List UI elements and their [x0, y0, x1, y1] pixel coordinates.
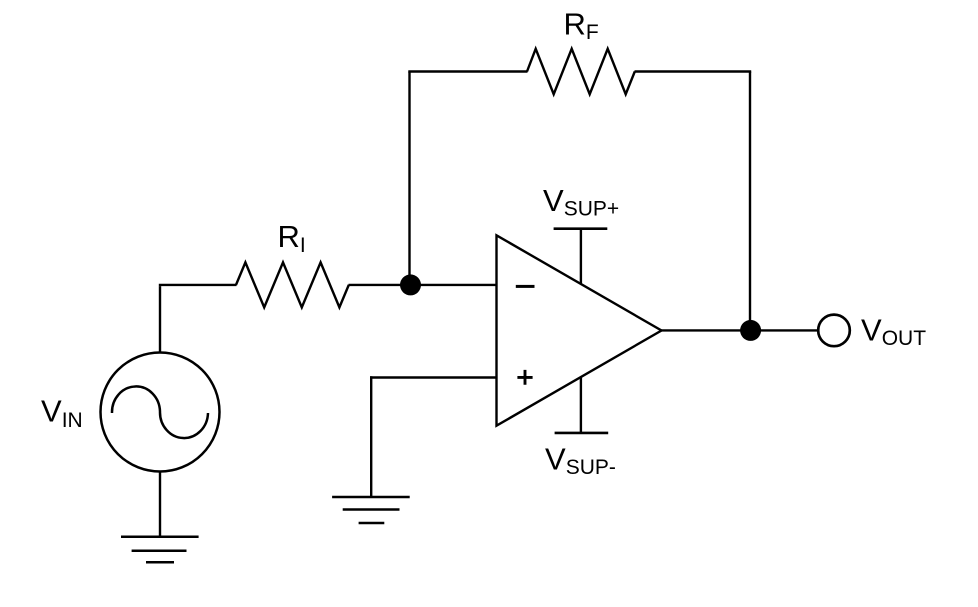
svg-text:F: F	[586, 21, 599, 44]
wire feedback top-left horizontal	[408, 70, 527, 72]
source VIN circle	[101, 353, 220, 472]
wire VIN bottom vertical	[159, 472, 161, 537]
op-amp U1 triangle	[497, 235, 662, 425]
svg-text:IN: IN	[62, 409, 83, 432]
svg-text:R: R	[564, 7, 586, 42]
wire feedback top-right horizontal	[635, 70, 752, 72]
wire VIN top vertical	[159, 286, 161, 352]
wire feedback left vertical	[408, 72, 410, 285]
node B output junction dot	[740, 320, 761, 341]
VSUP- supply bar	[555, 432, 609, 435]
svg-text:R: R	[278, 219, 300, 254]
wire VSUP+ to op-amp	[580, 229, 582, 284]
svg-text:SUP+: SUP+	[564, 197, 619, 220]
wire plus input horizontal	[370, 376, 497, 378]
svg-text:OUT: OUT	[882, 327, 927, 350]
wire RI to op-amp	[349, 284, 497, 286]
wire plus input vertical to ground	[370, 376, 372, 497]
op-amp minus input sign	[516, 285, 535, 288]
node A junction dot	[400, 274, 421, 295]
svg-text:V: V	[861, 313, 882, 348]
ground GND1 (plus input)	[332, 497, 410, 523]
source VIN sine wave	[112, 386, 208, 438]
svg-text:SUP-: SUP-	[566, 456, 616, 479]
wire VIN to RI	[159, 284, 237, 286]
output terminal circle	[818, 315, 850, 347]
svg-text:V: V	[41, 394, 62, 429]
op-amp plus input sign	[517, 370, 532, 385]
wire op-amp output	[662, 329, 818, 331]
svg-text:V: V	[543, 183, 564, 218]
wire feedback right vertical	[749, 72, 751, 331]
resistor RI	[236, 262, 349, 307]
resistor RF	[527, 49, 635, 94]
VSUP+ supply bar	[554, 227, 608, 230]
ground GND2 (source)	[121, 537, 199, 562]
svg-text:V: V	[545, 442, 566, 477]
svg-text:I: I	[300, 234, 306, 257]
wire VSUP- from op-amp	[580, 377, 582, 433]
